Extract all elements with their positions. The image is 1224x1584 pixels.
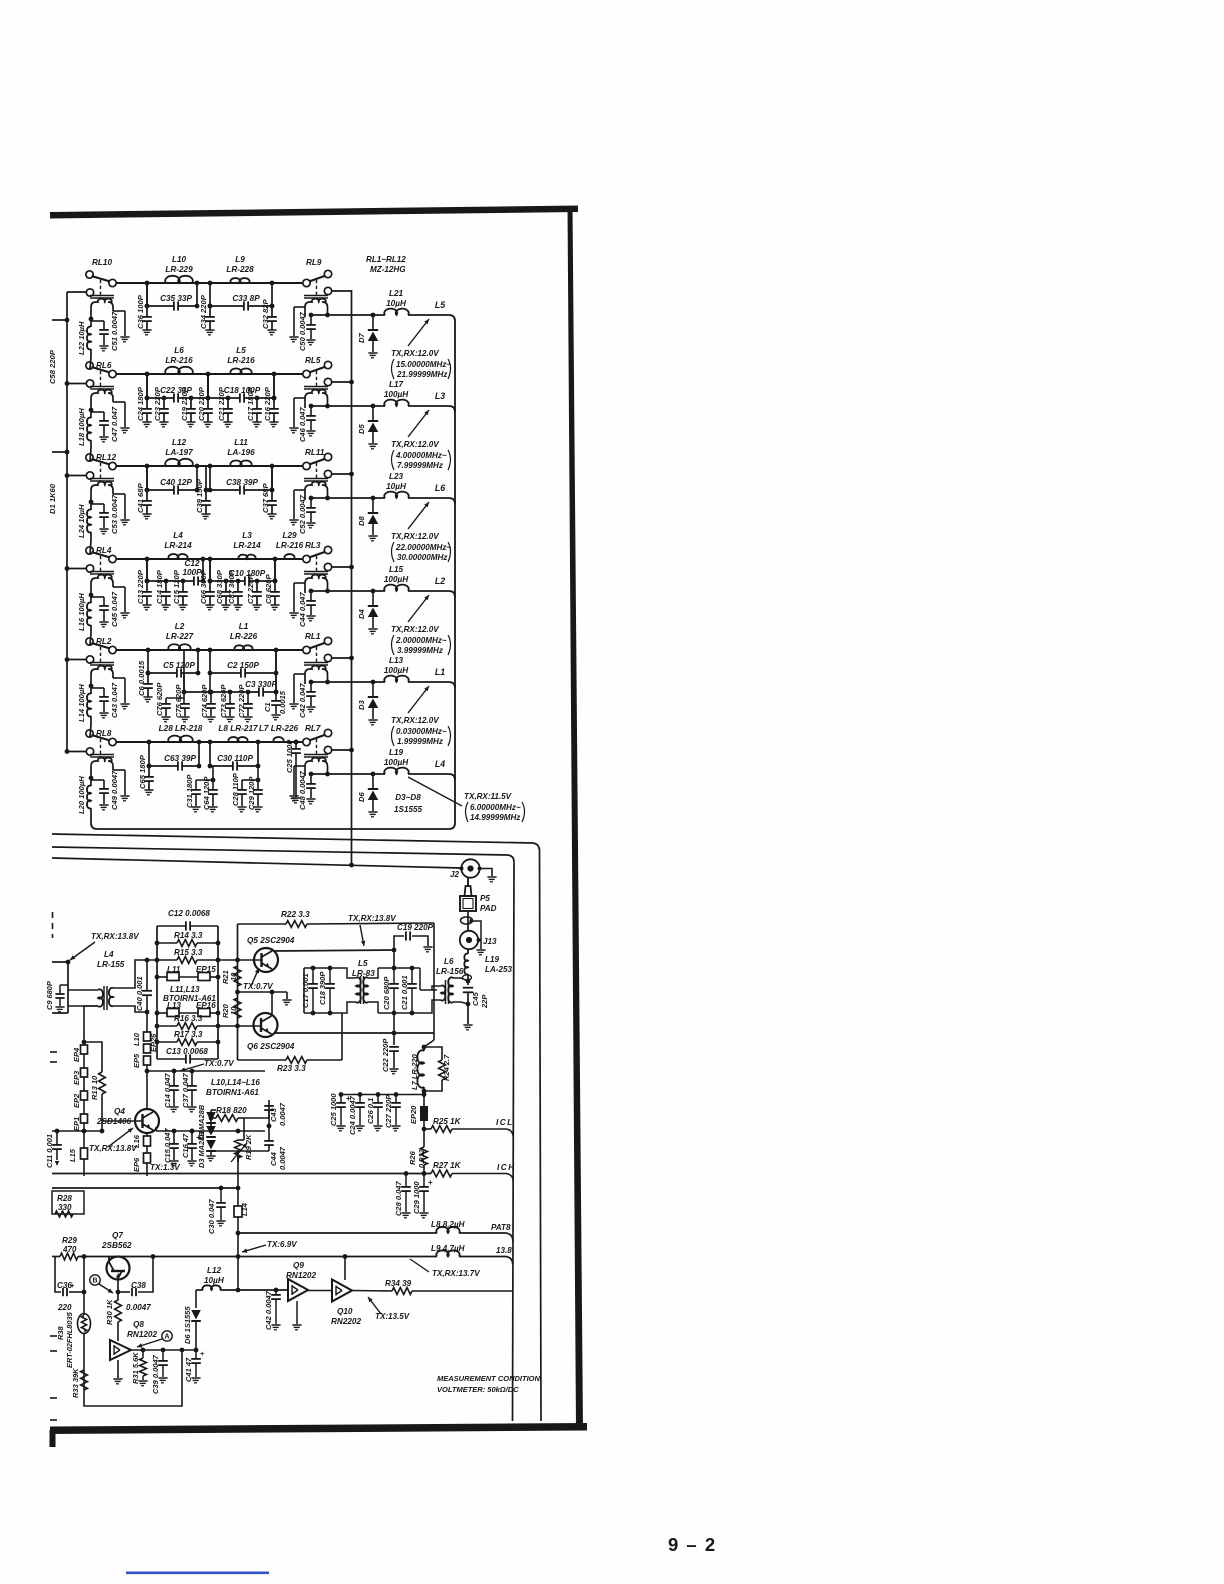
- resistor R31 5.6K: [142, 1350, 144, 1358]
- capacitor C14: [165, 581, 167, 592]
- svg-text:C75 620P: C75 620P: [174, 684, 183, 718]
- svg-text:L6: L6: [174, 346, 184, 355]
- wire row 5 coupling line 2: [210, 672, 241, 674]
- svg-text:D6: D6: [357, 792, 366, 802]
- capacitor C8: [274, 559, 276, 581]
- svg-text:C29 120P: C29 120P: [247, 776, 256, 810]
- svg-text:0.0047: 0.0047: [278, 1146, 287, 1170]
- capacitor box C17 C18: [304, 967, 342, 969]
- outer block edge right: [540, 850, 542, 1421]
- resistor R30 1K: [117, 1292, 119, 1300]
- svg-text:6.00000MHz~: 6.00000MHz~: [470, 803, 521, 812]
- svg-text:L21: L21: [389, 289, 404, 298]
- inner block edge right: [513, 862, 515, 1421]
- svg-text:TX,RX:12.0V: TX,RX:12.0V: [391, 625, 439, 634]
- wire Q7 base down: [117, 1276, 119, 1292]
- svg-text:RL10: RL10: [92, 258, 112, 267]
- svg-text:Q8: Q8: [133, 1320, 144, 1329]
- svg-text:R24 2.7: R24 2.7: [442, 1054, 451, 1081]
- svg-text:L28 LR-218: L28 LR-218: [159, 724, 203, 733]
- inductor L8: [228, 737, 247, 742]
- svg-text:LR-216: LR-216: [227, 356, 255, 365]
- svg-text:C34 220P: C34 220P: [199, 294, 208, 329]
- tank coil row 1 left: [90, 295, 114, 297]
- svg-text:R22 3.3: R22 3.3: [281, 910, 310, 919]
- capacitor C18: [239, 393, 241, 402]
- svg-text:C36 100P: C36 100P: [136, 294, 145, 329]
- wire J2 line: [52, 858, 461, 868]
- wire tank 4 to relay below: [90, 633, 91, 645]
- svg-text:1.99999MHz: 1.99999MHz: [397, 737, 443, 746]
- capacitor box C20 C21: [378, 967, 420, 969]
- resistor R20 10: [234, 998, 241, 1018]
- wire Q8 output line: [131, 1349, 196, 1351]
- svg-text:L2: L2: [435, 576, 445, 586]
- wire J2 to ground: [480, 869, 492, 877]
- svg-text:C6 0.0015: C6 0.0015: [137, 660, 146, 696]
- svg-text:D1 1K60: D1 1K60: [48, 483, 57, 514]
- resistor R19 2K variable: [243, 1118, 245, 1140]
- wire tank 1 to relay below: [90, 357, 91, 369]
- capacitor C21: [227, 398, 229, 409]
- bus wire B: [52, 847, 508, 855]
- capacitor C50: [310, 315, 312, 324]
- inductor L14: [237, 1155, 239, 1206]
- svg-text:Q7: Q7: [112, 1231, 123, 1240]
- wire row 6 coupling line 2: [210, 765, 233, 767]
- svg-text:21.99999MHz: 21.99999MHz: [396, 370, 447, 379]
- inductor L3 LR-214: [239, 555, 256, 559]
- svg-text:C20 220P: C20 220P: [197, 386, 206, 421]
- svg-text:C47 0.047: C47 0.047: [110, 406, 119, 442]
- pad EP20: [420, 1106, 428, 1121]
- capacitor C48: [310, 774, 312, 783]
- svg-text:C1: C1: [263, 702, 272, 712]
- svg-text:C27 220P: C27 220P: [384, 1094, 393, 1128]
- inductor L18: [90, 410, 92, 418]
- wire row 4 coupling line 1: [147, 580, 194, 582]
- svg-text:C37 0.047: C37 0.047: [181, 1073, 190, 1108]
- capacitor C46: [310, 406, 312, 415]
- svg-text:R38: R38: [56, 1326, 65, 1340]
- bus wire A: [52, 834, 533, 843]
- svg-text:RL7: RL7: [305, 724, 321, 733]
- svg-text:C2 150P: C2 150P: [227, 661, 259, 670]
- svg-text:EP3: EP3: [72, 1070, 81, 1085]
- svg-text:C11 0.001: C11 0.001: [45, 1134, 54, 1168]
- capacitor C22: [173, 393, 175, 402]
- diode D6: [372, 774, 374, 789]
- svg-text:220: 220: [57, 1303, 72, 1312]
- svg-text:C37 68P: C37 68P: [261, 483, 270, 513]
- resistor R33 39K: [81, 1370, 88, 1390]
- wire row 5 coupling line 1: [148, 672, 177, 674]
- svg-text:L4: L4: [173, 531, 183, 540]
- capacitor C18 390P: [329, 968, 331, 983]
- svg-text:C18 390P: C18 390P: [318, 971, 327, 1005]
- capacitor C87: [237, 581, 239, 592]
- svg-text:L8 LR-217: L8 LR-217: [218, 724, 258, 733]
- svg-text:C40 12P: C40 12P: [160, 478, 192, 487]
- wire row 6 coupling line 1: [149, 765, 178, 767]
- capacitor C19: [190, 398, 192, 409]
- wire Q4 collector node: [147, 1070, 265, 1072]
- svg-text:C9 680P: C9 680P: [45, 981, 54, 1010]
- diode D7: [372, 315, 374, 330]
- svg-text:C35 33P: C35 33P: [160, 294, 192, 303]
- pads EP5 L10 EP26 column: [146, 1012, 148, 1032]
- svg-text:15.00000MHz~: 15.00000MHz~: [396, 360, 451, 369]
- svg-text:C63 39P: C63 39P: [164, 754, 196, 763]
- svg-text:C25 1000: C25 1000: [329, 1093, 338, 1126]
- wire row 6 main line: [113, 741, 307, 743]
- capacitor C2: [240, 668, 242, 677]
- capacitor C66: [209, 559, 211, 581]
- svg-text:C28 110P: C28 110P: [231, 772, 240, 806]
- tank coil row 2 left: [90, 386, 114, 388]
- capacitor C6: [147, 673, 149, 684]
- svg-text:L2: L2: [175, 622, 185, 631]
- svg-text:C16 47: C16 47: [181, 1133, 190, 1158]
- svg-text:R26: R26: [408, 1150, 417, 1165]
- svg-text:MEASUREMENT CONDITION: MEASUREMENT CONDITION: [437, 1374, 541, 1383]
- tank transformer row 3: [304, 478, 328, 480]
- capacitor C5: [176, 668, 178, 677]
- wire relay RL1 to NC bus: [332, 657, 352, 659]
- wire feedback loop: [84, 1350, 182, 1406]
- capacitor C17: [256, 398, 258, 409]
- inductor L19 100&#181;H: [384, 768, 408, 774]
- inductor L23 10&#181;H: [384, 492, 408, 498]
- capacitor C68: [225, 581, 227, 592]
- svg-text:10µH: 10µH: [204, 1276, 225, 1285]
- capacitor C7: [256, 581, 258, 592]
- wire Q6 collector line: [274, 1032, 434, 1034]
- wire left bus to row 2: [67, 383, 86, 385]
- svg-text:L6: L6: [435, 483, 445, 493]
- diode D5: [372, 406, 374, 421]
- capacitor C25 1000: [340, 1095, 342, 1103]
- wire C19 node riser: [393, 950, 395, 968]
- wire Q4 emitter node: [155, 1127, 157, 1131]
- wire relay RL5 to NC bus: [332, 381, 352, 383]
- svg-text:+: +: [200, 1349, 205, 1358]
- resistor R26 0.012: [423, 1129, 425, 1147]
- svg-text:+: +: [70, 1281, 75, 1290]
- svg-text:B: B: [92, 1278, 97, 1285]
- diode D3: [372, 682, 374, 697]
- svg-text:J13: J13: [483, 937, 497, 946]
- capacitor C34: [209, 306, 211, 317]
- diode D6 1S1555: [195, 1290, 197, 1308]
- svg-text:D4: D4: [357, 609, 366, 619]
- svg-text:TX:0.7V: TX:0.7V: [243, 982, 273, 991]
- wire main low line: [52, 1256, 60, 1258]
- svg-text:9 – 2: 9 – 2: [668, 1534, 717, 1555]
- inductor L24: [90, 502, 92, 510]
- capacitor C63: [177, 761, 179, 770]
- capacitor C42 0.0047: [275, 1290, 277, 1294]
- svg-text:C50 0.0047: C50 0.0047: [298, 311, 307, 351]
- svg-text:0.012: 0.012: [417, 1148, 426, 1168]
- svg-text:L11,L13: L11,L13: [170, 985, 200, 994]
- svg-text:C29 1000: C29 1000: [412, 1181, 421, 1214]
- wire relay RL9 to NC bus: [332, 290, 352, 292]
- border bottom bar: [50, 1423, 587, 1434]
- wire left bus to row 5: [67, 659, 86, 661]
- svg-text:C43 0.047: C43 0.047: [110, 682, 119, 718]
- wire emitter junction: [238, 991, 288, 993]
- svg-text:C8 620P: C8 620P: [264, 574, 273, 604]
- wire L4 to EP column: [84, 1006, 98, 1042]
- capacitor C10: [244, 576, 246, 585]
- tank coil row 4 left: [90, 571, 114, 573]
- svg-text:C31 180P: C31 180P: [185, 774, 194, 808]
- capacitor C45 22P: [466, 979, 471, 984]
- capacitor C51: [91, 320, 104, 322]
- capacitor C31 180P: [212, 766, 214, 780]
- wire Q9 ground: [296, 1301, 298, 1324]
- svg-text:LR-229: LR-229: [165, 265, 193, 274]
- svg-text:R31 5.6K: R31 5.6K: [131, 1352, 140, 1384]
- capacitor C12: [193, 576, 195, 585]
- svg-text:0.03000MHz~: 0.03000MHz~: [396, 727, 447, 736]
- wire tank 5 to relay below: [90, 724, 91, 737]
- svg-text:C18 100P: C18 100P: [224, 386, 261, 395]
- svg-text:R23 3.3: R23 3.3: [277, 1064, 306, 1073]
- wire row 3 coupling line 2: [210, 489, 240, 491]
- svg-text:Q10: Q10: [337, 1307, 353, 1316]
- svg-text:C43: C43: [269, 1107, 278, 1122]
- svg-text:D8: D8: [357, 516, 366, 526]
- svg-text:C24 180P: C24 180P: [136, 386, 145, 421]
- svg-text:R18 820: R18 820: [216, 1106, 247, 1115]
- svg-text:L19: L19: [485, 955, 499, 964]
- svg-text:C45 0.047: C45 0.047: [110, 591, 119, 627]
- tank coil row 6 left: [90, 754, 114, 756]
- wire base bus: [52, 1130, 102, 1132]
- wire row 4 output line: [311, 590, 385, 592]
- svg-text:LR-227: LR-227: [166, 632, 194, 641]
- svg-text:100µH: 100µH: [384, 575, 409, 584]
- capacitor C74: [210, 692, 212, 703]
- svg-text:TX,RX:13.7V: TX,RX:13.7V: [432, 1269, 480, 1278]
- svg-text:C53 0.0047: C53 0.0047: [110, 494, 119, 534]
- thermistor R38 ERT-02FHL8035: [78, 1314, 91, 1334]
- svg-text:C38: C38: [131, 1281, 146, 1290]
- svg-text:MZ-12HG: MZ-12HG: [370, 265, 406, 274]
- inductor L14: [90, 686, 92, 694]
- inductor L4 LR-214: [168, 554, 187, 559]
- svg-text:EP1: EP1: [72, 1117, 81, 1131]
- capacitor C17 0.001: [312, 968, 314, 983]
- svg-text:10: 10: [229, 972, 238, 981]
- inductor L12 LA-197: [165, 459, 193, 466]
- svg-text:C16 220P: C16 220P: [263, 386, 272, 421]
- svg-text:L22 10µH: L22 10µH: [77, 321, 86, 355]
- svg-text:R30 1K: R30 1K: [105, 1299, 114, 1325]
- connector J2: [461, 859, 479, 877]
- svg-text:L24 10µH: L24 10µH: [77, 504, 86, 538]
- wire row 4 main line: [113, 558, 307, 560]
- svg-text:C65 180P: C65 180P: [138, 754, 147, 789]
- tank coil row 5 left: [90, 662, 114, 664]
- svg-text:L7 LR-220: L7 LR-220: [410, 1053, 419, 1090]
- capacitor C38: [239, 485, 241, 494]
- inductor L10 LR-229: [165, 276, 193, 283]
- svg-text:3.99999MHz: 3.99999MHz: [397, 646, 443, 655]
- svg-text:C64 120P: C64 120P: [202, 776, 211, 810]
- svg-text:100µH: 100µH: [384, 758, 409, 767]
- wire tank 2 to relay below: [90, 448, 91, 461]
- wire Q6 collector to C22 node: [393, 1013, 395, 1033]
- capacitor C37 0.047: [191, 1071, 193, 1085]
- capacitor C25 100P: [295, 742, 297, 748]
- svg-text:PAD: PAD: [480, 904, 497, 913]
- svg-text:C42 0.0047: C42 0.0047: [264, 1290, 273, 1330]
- svg-text:LR-216: LR-216: [276, 541, 304, 550]
- svg-text:EP4: EP4: [72, 1047, 81, 1062]
- svg-text:P5: P5: [480, 894, 490, 903]
- svg-text:C73 620P: C73 620P: [219, 684, 228, 718]
- wire Q5 collector line: [274, 950, 394, 951]
- svg-text:C42 0.047: C42 0.047: [298, 683, 307, 718]
- svg-text:C39 0.0047: C39 0.0047: [151, 1354, 160, 1394]
- svg-text:C74 620P: C74 620P: [200, 684, 209, 718]
- svg-text:C21 0.001: C21 0.001: [400, 975, 409, 1010]
- inductor L7 LR-220: [422, 1045, 427, 1050]
- svg-text:TX:1.3V: TX:1.3V: [150, 1163, 180, 1172]
- svg-text:C13 0.0068: C13 0.0068: [166, 1047, 208, 1056]
- capacitor C72: [247, 692, 249, 703]
- capacitor C39 0.0047: [162, 1350, 164, 1360]
- svg-text:C49 0.0047: C49 0.0047: [110, 770, 119, 810]
- svg-text:TX,RX:12.0V: TX,RX:12.0V: [391, 532, 439, 541]
- note row 5 voltage/frequency: [408, 686, 429, 713]
- svg-text:C5 120P: C5 120P: [163, 661, 195, 670]
- svg-text:2.00000MHz~: 2.00000MHz~: [395, 636, 447, 645]
- capacitor C44 0.0047: [268, 1126, 270, 1140]
- svg-text:C72 220P: C72 220P: [237, 684, 246, 718]
- capacitor C15 0.047: [173, 1131, 175, 1143]
- svg-text:L16: L16: [132, 1134, 141, 1148]
- left bus wire: [67, 291, 90, 293]
- svg-text:C87 300P: C87 300P: [227, 569, 236, 604]
- svg-text:EP20: EP20: [409, 1105, 418, 1124]
- wire Q4 base: [102, 1120, 143, 1122]
- capacitor C36: [146, 283, 148, 306]
- note row 4 voltage/frequency: [408, 595, 429, 622]
- svg-text:22.00000MHz~: 22.00000MHz~: [395, 543, 451, 552]
- svg-text:L14: L14: [240, 1202, 249, 1216]
- svg-text:C52 0.0047: C52 0.0047: [298, 494, 307, 534]
- svg-text:L3: L3: [435, 391, 445, 401]
- capacitor C1 0.0015: [275, 692, 277, 700]
- svg-text:C30 110P: C30 110P: [217, 754, 253, 763]
- svg-text:TX,RX:13.8V: TX,RX:13.8V: [348, 914, 396, 923]
- svg-text:TX,RX:11.5V: TX,RX:11.5V: [464, 792, 512, 801]
- wire ICH line: [52, 1173, 431, 1175]
- svg-text:C13 220P: C13 220P: [136, 569, 145, 604]
- svg-text:C48 0.0047: C48 0.0047: [298, 770, 307, 810]
- svg-text:C41 47: C41 47: [184, 1357, 193, 1382]
- wire row 2 coupling line 2: [208, 397, 240, 399]
- svg-text:L6: L6: [444, 957, 454, 966]
- svg-text:C30 0.047: C30 0.047: [207, 1199, 216, 1234]
- diodes D2 D3 MA28B: [210, 1110, 212, 1131]
- svg-text:Q9: Q9: [293, 1261, 304, 1270]
- svg-text:470: 470: [62, 1245, 77, 1254]
- wire row 1 coupling line 2: [210, 305, 244, 307]
- svg-text:L12: L12: [207, 1266, 222, 1275]
- svg-text:C12: C12: [184, 559, 199, 568]
- wire row 1 main line: [113, 282, 307, 284]
- svg-text:L10: L10: [132, 1032, 141, 1046]
- tank transformer row 6: [304, 754, 328, 756]
- svg-text:C44 0.047: C44 0.047: [298, 592, 307, 627]
- capacitor C43: [91, 687, 104, 689]
- svg-text:EP5: EP5: [132, 1053, 141, 1068]
- capacitor C27 220P: [395, 1095, 397, 1103]
- wire Q5 Q6 left rail: [237, 924, 239, 1060]
- capacitor C41: [146, 466, 148, 490]
- svg-text:0.0047: 0.0047: [126, 1303, 151, 1312]
- svg-text:L5: L5: [435, 300, 445, 310]
- wire row 1 coupling line 1: [147, 305, 174, 307]
- svg-text:TX:6.9V: TX:6.9V: [267, 1240, 297, 1249]
- svg-text:L11: L11: [234, 438, 248, 447]
- capacitor C11 0.001: [56, 1131, 58, 1144]
- wire R22 feed: [433, 923, 435, 1040]
- svg-text:LR-155: LR-155: [97, 960, 125, 969]
- wire row 3 coupling line 1: [147, 489, 174, 491]
- wire Q10 supply: [344, 1257, 346, 1281]
- svg-text:L3: L3: [242, 531, 252, 540]
- capacitor C33: [243, 301, 245, 310]
- relay NC bus wire: [351, 290, 353, 865]
- capacitor C76 620P: [183, 692, 185, 698]
- svg-text:13.8: 13.8: [496, 1246, 512, 1255]
- plug P5 PAD: [467, 878, 469, 887]
- wire C21 box to L6: [419, 968, 421, 990]
- svg-text:C58 220P: C58 220P: [48, 349, 57, 384]
- svg-text:MA28B: MA28B: [197, 1104, 206, 1130]
- svg-text:C32 82P: C32 82P: [261, 299, 270, 329]
- svg-text:C44: C44: [269, 1151, 278, 1166]
- svg-text:C17 180P: C17 180P: [246, 386, 255, 421]
- wire row 4 coupling line 2: [210, 580, 245, 582]
- svg-text:RL3: RL3: [305, 541, 321, 550]
- note row 3 voltage/frequency: [408, 502, 429, 529]
- tank transformer row 2: [304, 386, 328, 388]
- capacitor C44: [310, 591, 312, 600]
- svg-text:ICL: ICL: [496, 1118, 514, 1127]
- wire row 5 coupling line 3: [184, 691, 259, 693]
- svg-text:14.99999MHz: 14.99999MHz: [470, 813, 520, 822]
- svg-text:D6 1S1555: D6 1S1555: [183, 1306, 192, 1344]
- wire relay RL11 to NC bus: [332, 473, 352, 475]
- svg-text:C38 39P: C38 39P: [226, 478, 258, 487]
- svg-text:D3: D3: [357, 700, 366, 710]
- svg-text:L18 100µH: L18 100µH: [77, 408, 86, 446]
- inductor L6 LR-216: [165, 367, 193, 374]
- svg-text:L23: L23: [389, 472, 404, 481]
- svg-text:C20 680P: C20 680P: [382, 976, 391, 1010]
- svg-text:10: 10: [229, 1006, 238, 1015]
- capacitor C29 120P: [257, 780, 259, 789]
- wire row 1 output line: [311, 314, 385, 316]
- circled B: [90, 1275, 100, 1285]
